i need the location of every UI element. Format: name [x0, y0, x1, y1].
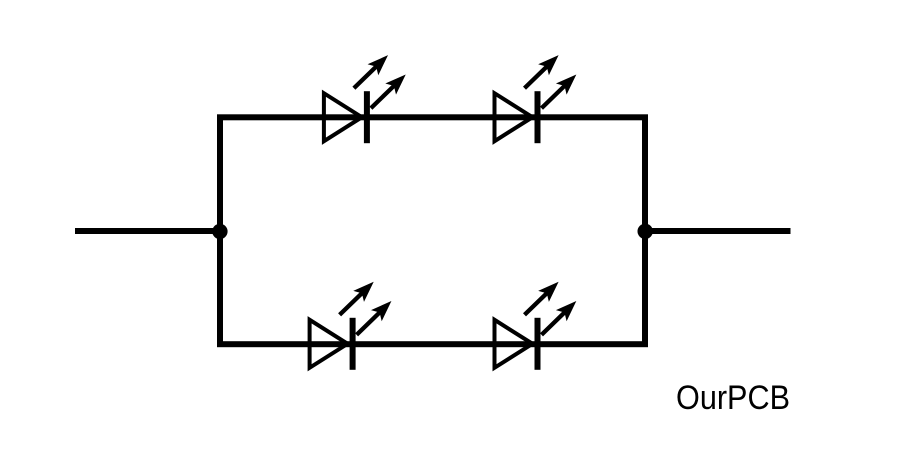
- wire: parallel loop rectangle: [220, 117, 645, 344]
- LED D4 (bottom branch, right): [495, 276, 582, 370]
- LED D1 (top branch, left): [324, 50, 411, 144]
- wire: right lead: [645, 228, 791, 234]
- svg-text:OurPCB: OurPCB: [676, 379, 790, 417]
- wire: left lead: [75, 228, 220, 234]
- node: left junction dot: [212, 224, 227, 239]
- LED D2 (top branch, right): [495, 50, 582, 144]
- node: right junction dot: [638, 224, 653, 239]
- LED D3 (bottom branch, left): [310, 276, 397, 370]
